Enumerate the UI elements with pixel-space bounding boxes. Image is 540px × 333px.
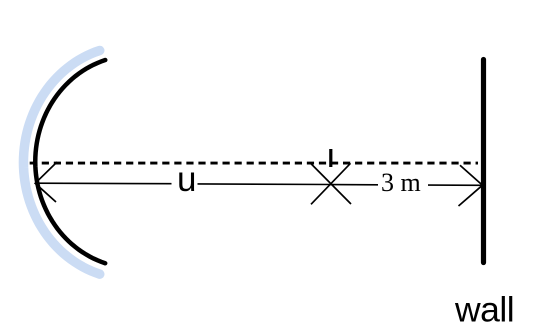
- mirror highlight (light blue arc): [23, 50, 99, 274]
- arrowhead barbs at object point (X cross formed by u and 3 m arrow tips): [310, 163, 351, 204]
- principal axis (dashed line): [30, 162, 478, 165]
- 3 m dimension line right segment: [428, 184, 483, 186]
- svg-text:u: u: [177, 160, 196, 199]
- u dimension line right segment: [198, 183, 331, 186]
- svg-text:wall: wall: [454, 290, 514, 330]
- object tick marker: [329, 149, 332, 167]
- wall: [481, 60, 486, 263]
- arrowhead at mirror (left end of u arrow): [35, 162, 57, 202]
- concave mirror (black arc): [35, 60, 105, 263]
- 3 m dimension line left segment: [331, 184, 379, 186]
- svg-text:3 m: 3 m: [381, 168, 421, 197]
- u dimension line left segment: [35, 182, 171, 185]
- arrowhead at wall (right end of 3 m arrow): [459, 165, 483, 206]
- arrowhead barbs at object point (second diagonal): [311, 163, 351, 204]
